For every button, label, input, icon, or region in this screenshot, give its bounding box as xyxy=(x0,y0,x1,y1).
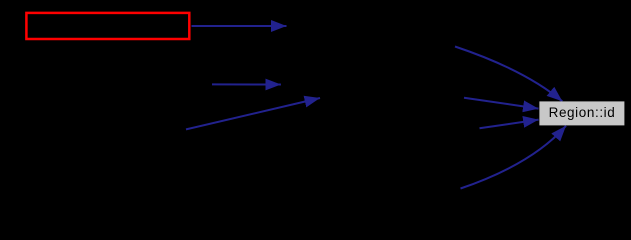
wire curve B xyxy=(461,126,567,189)
node Region::id xyxy=(539,101,624,125)
wire arrow 2 xyxy=(212,83,281,85)
wire arrow 4 xyxy=(464,98,539,109)
node (red, current) xyxy=(26,13,189,39)
svg-text:Region::id: Region::id xyxy=(549,105,616,120)
wire arrow 3 xyxy=(186,98,320,129)
wire arrow 1 xyxy=(192,25,287,27)
wire arrow 5 xyxy=(480,120,539,129)
wire curve A xyxy=(455,47,562,102)
